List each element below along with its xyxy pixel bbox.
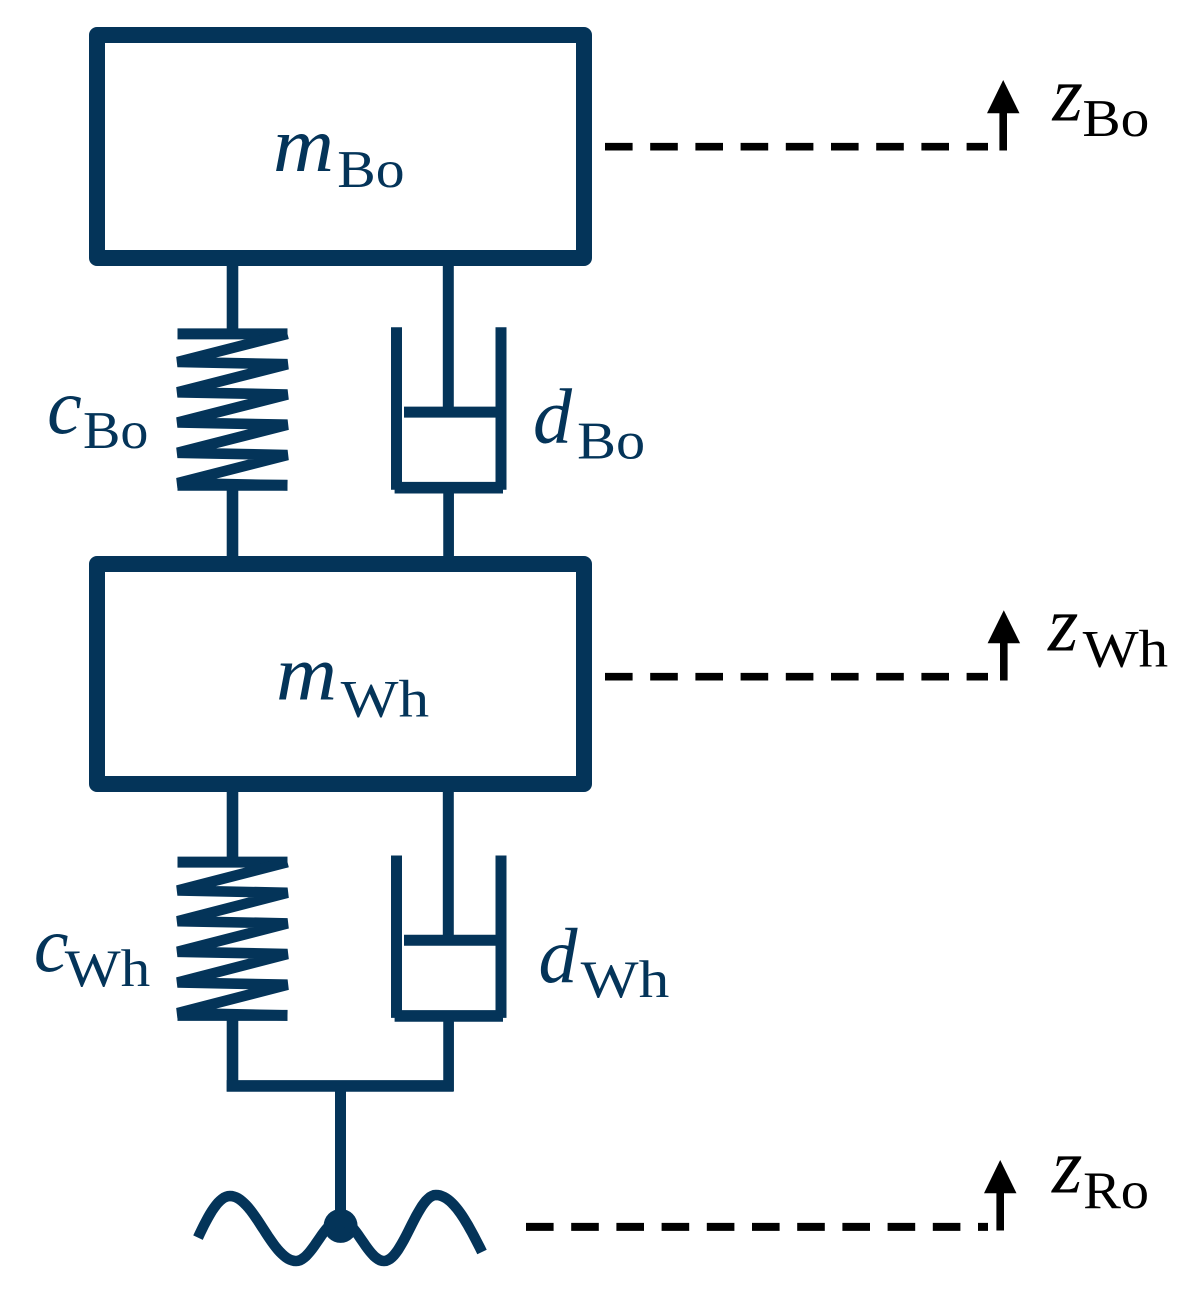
damper dWh cylinder left wall (391, 856, 402, 1018)
svg-text:z: z (1051, 1123, 1082, 1210)
svg-text:Wh: Wh (1083, 620, 1169, 678)
arrow zRo (984, 1160, 1017, 1231)
body mass block mBo (97, 35, 584, 258)
damper dBo cylinder bottom (395, 482, 503, 494)
damper dWh cylinder bottom (395, 1010, 503, 1022)
svg-text:Ro: Ro (1083, 1162, 1149, 1220)
dashed reference line zRo (526, 1223, 988, 1231)
damper dBo piston plate (404, 407, 496, 418)
wire: mWh to spring cWh (227, 788, 239, 862)
label zRo (1051, 1123, 1149, 1221)
dashed reference line zWh (605, 673, 988, 681)
spring cWh top bar (178, 857, 288, 868)
svg-text:Wh: Wh (581, 951, 670, 1009)
damper dWh cylinder right wall (496, 856, 507, 1018)
label mBo (273, 101, 405, 199)
damper dWh piston rod (443, 788, 454, 945)
svg-text:Bo: Bo (577, 413, 645, 471)
spring cWh bottom bar (178, 1010, 288, 1021)
junction bar joining spring and damper (227, 1080, 454, 1092)
dashed reference line zBo (605, 143, 988, 151)
road contact node (324, 1209, 358, 1243)
svg-text:m: m (273, 101, 334, 188)
wire: spring cBo to mWh (227, 485, 239, 562)
spring cBo top bar (178, 328, 288, 339)
label zBo (1052, 51, 1150, 149)
damper dBo cylinder right wall (496, 327, 507, 489)
label cBo (47, 363, 148, 460)
wire: spring cWh down (227, 1015, 239, 1092)
svg-text:c: c (47, 363, 82, 450)
svg-text:d: d (533, 373, 573, 460)
wire: damper dWh down (443, 1018, 454, 1092)
damper dBo piston rod (443, 260, 454, 417)
spring cBo bottom bar (178, 480, 288, 491)
spring cWh zigzag (178, 862, 288, 1015)
arrow zWh (988, 610, 1021, 680)
label dBo (533, 373, 645, 471)
svg-text:Bo: Bo (83, 402, 148, 460)
label zWh (1047, 581, 1168, 679)
wheel mass block mWh (97, 564, 584, 784)
svg-text:c: c (34, 901, 69, 988)
svg-text:Bo: Bo (337, 141, 404, 199)
wire: junction to road contact (335, 1086, 346, 1226)
svg-text:z: z (1047, 581, 1078, 668)
wire: mBo to spring cBo (227, 260, 239, 334)
spring cBo zigzag (178, 334, 288, 485)
label cWh (34, 901, 150, 998)
label mWh (276, 630, 429, 729)
road profile wave (198, 1195, 482, 1261)
svg-text:d: d (539, 912, 579, 999)
arrow zBo (987, 80, 1020, 151)
label dWh (539, 912, 670, 1009)
svg-text:m: m (276, 630, 337, 717)
wire: damper dBo to mWh (443, 490, 454, 562)
svg-text:z: z (1052, 51, 1083, 138)
svg-text:Wh: Wh (341, 670, 430, 728)
svg-text:Wh: Wh (65, 940, 151, 998)
damper dWh piston plate (404, 935, 496, 946)
svg-text:Bo: Bo (1082, 90, 1149, 148)
damper dBo cylinder left wall (391, 327, 402, 489)
